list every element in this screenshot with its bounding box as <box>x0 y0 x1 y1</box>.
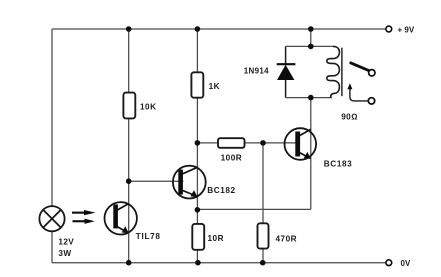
svg-text:TIL78: TIL78 <box>136 232 161 241</box>
actuation arrow <box>347 83 352 97</box>
svg-text:1K: 1K <box>209 82 220 91</box>
transistor BC182 <box>173 166 206 199</box>
svg-text:100R: 100R <box>221 153 243 162</box>
wire relay top <box>286 45 333 47</box>
svg-text:BC182: BC182 <box>207 186 236 195</box>
0V rail <box>52 262 386 264</box>
svg-text:10R: 10R <box>208 234 225 243</box>
wire BC183 base <box>263 142 298 144</box>
+9V rail <box>52 28 386 30</box>
wire 10K branch <box>128 29 130 263</box>
wire 100R row <box>197 142 263 144</box>
svg-text:0V: 0V <box>401 259 411 268</box>
junction 0V rail TIL78 <box>126 260 132 266</box>
relay contact lower wire <box>350 97 368 101</box>
junction top rail 10K <box>126 26 132 32</box>
svg-text:1N914: 1N914 <box>244 67 269 76</box>
wire BC183 collector-emitter <box>310 98 312 210</box>
wire 470R branch <box>262 143 264 263</box>
resistor 470R <box>258 223 269 248</box>
relay contact terminal lower <box>368 98 374 104</box>
junction relay bottom <box>308 95 314 101</box>
light arrow lower <box>73 219 95 224</box>
terminal 0V <box>386 260 392 266</box>
lamp 12V 3W <box>39 206 64 231</box>
resistor 100R <box>218 138 245 148</box>
junction TIL78 collector / BC182 base <box>126 178 132 184</box>
wire BC182 base <box>129 180 184 182</box>
relay core bar <box>341 48 343 96</box>
svg-text:+ 9V: + 9V <box>398 26 415 35</box>
junction top rail 1K <box>195 26 201 32</box>
svg-text:BC183: BC183 <box>324 160 353 169</box>
svg-text:3W: 3W <box>58 249 71 258</box>
resistor 1K <box>191 72 203 97</box>
wire lamp branch <box>51 29 53 263</box>
junction 1K / 100R / BC182 collector <box>195 140 201 146</box>
wire emitter coupling <box>197 208 310 210</box>
svg-text:90Ω: 90Ω <box>341 113 358 122</box>
svg-text:12V: 12V <box>58 238 74 247</box>
junction BC182 emitter / 10R <box>195 207 201 213</box>
wire relay branch upper <box>310 29 312 46</box>
transistor BC183 <box>285 128 317 160</box>
relay contact blade <box>351 63 369 71</box>
junction 100R / 470R / BC183 base <box>260 140 266 146</box>
light arrow upper <box>72 210 96 215</box>
resistor 10R <box>192 224 204 250</box>
terminal +9V <box>386 26 392 32</box>
svg-text:470R: 470R <box>276 235 298 244</box>
svg-text:10K: 10K <box>140 103 157 112</box>
resistor 10K <box>123 93 135 119</box>
junction relay top <box>308 44 314 50</box>
relay contact terminal upper <box>369 70 375 76</box>
wire relay bottom <box>286 97 332 99</box>
junction top rail relay <box>308 26 314 32</box>
wire 1K branch <box>196 29 198 263</box>
diode 1N914 <box>277 46 296 97</box>
junction 0V rail 470R <box>260 260 266 266</box>
junction 0V rail 10R <box>195 260 201 266</box>
phototransistor TIL78 <box>105 202 137 234</box>
relay coil 90R <box>327 46 340 97</box>
